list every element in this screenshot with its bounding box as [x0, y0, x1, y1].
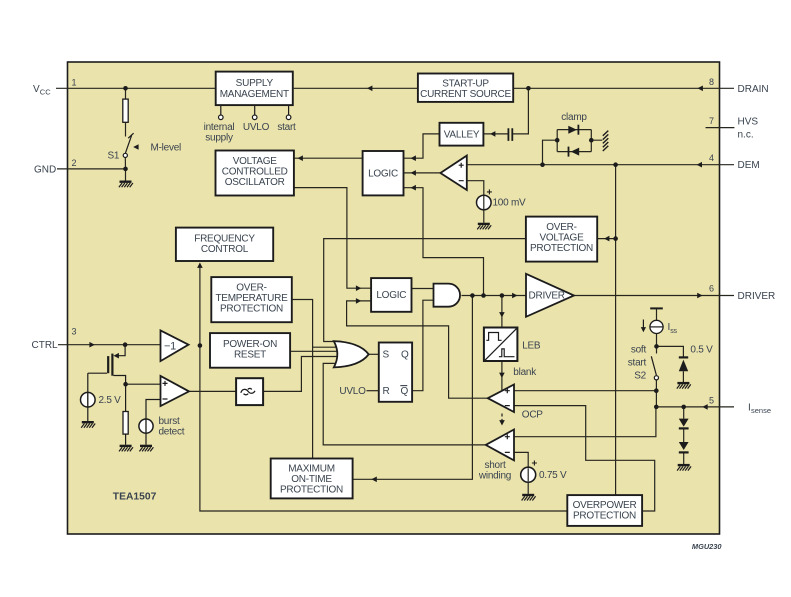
pin circles supply management — [219, 105, 291, 120]
wire ctrl comparator to filter — [189, 390, 236, 392]
diode sense D3 — [679, 419, 689, 427]
wire short winding plus input — [514, 407, 656, 437]
svg-text:OVER-: OVER- — [236, 283, 266, 294]
switch S2 — [651, 356, 656, 375]
arrowhead Isense into chip — [702, 404, 707, 410]
block OVERPOWER PROTECTION — [567, 495, 642, 526]
svg-text:−1: −1 — [164, 340, 176, 352]
wire freq control arrow line — [199, 264, 201, 346]
wire OT protection output — [292, 300, 342, 459]
svg-text:start: start — [277, 122, 296, 133]
arrowhead blank into OCP — [499, 373, 505, 378]
junction GND switch S1 — [123, 167, 128, 172]
ground below sense diodes — [677, 465, 691, 471]
wire OCP minus to overpower — [514, 406, 655, 511]
svg-text:GND: GND — [34, 164, 56, 175]
svg-text:LOGIC: LOGIC — [368, 168, 398, 179]
wire GND pin 2 line — [57, 168, 126, 170]
svg-text:Q: Q — [401, 350, 409, 361]
block OVER-VOLTAGE PROTECTION — [526, 217, 597, 262]
svg-text:HVS: HVS — [738, 116, 759, 127]
svg-text:CC: CC — [40, 87, 51, 96]
wire LOGIC1 input3 feedback — [404, 188, 484, 296]
comparator OCP — [488, 385, 514, 413]
svg-text:VOLTAGE: VOLTAGE — [539, 233, 584, 244]
arrowhead into supply management — [367, 86, 372, 92]
svg-text:S1: S1 — [108, 151, 120, 162]
junction Isense S2 node — [654, 405, 659, 410]
svg-text:CONTROLLED: CONTROLLED — [222, 167, 288, 178]
svg-text:PROTECTION: PROTECTION — [573, 510, 636, 521]
svg-text:winding: winding — [478, 470, 511, 481]
arrowhead LOGIC into VCO — [298, 155, 303, 161]
comparator short winding — [486, 430, 514, 461]
block LEB — [484, 328, 518, 362]
wire DRAIN pin 8 line — [513, 87, 734, 89]
svg-text:VALLEY: VALLEY — [444, 130, 480, 141]
wire -1 output down to overpower — [200, 346, 567, 512]
wire CTRL pin 3 line — [58, 344, 161, 346]
block VALLEY — [440, 123, 484, 146]
wire sense diode stack — [683, 407, 685, 464]
current source Iss — [650, 307, 663, 309]
svg-text:ss: ss — [670, 328, 677, 335]
junction -1 output node — [198, 343, 203, 348]
svg-text:detect: detect — [159, 427, 185, 438]
wire OCP plus input — [514, 390, 656, 392]
block LOGIC U1 — [363, 151, 404, 195]
junction clamp left node — [555, 138, 560, 143]
svg-text:0.5 V: 0.5 V — [690, 345, 713, 356]
or-gate — [334, 341, 369, 367]
wire DEM pin 4 line — [467, 164, 734, 166]
filter squiggle — [241, 388, 255, 394]
svg-text:RESET: RESET — [234, 350, 266, 361]
wire OR to latch S — [369, 353, 379, 355]
svg-text:MAXIMUM: MAXIMUM — [288, 464, 335, 475]
wire AND output to maximum on-time — [353, 296, 473, 480]
svg-text:6: 6 — [709, 284, 714, 294]
wire AND output to DRIVER — [462, 295, 527, 297]
arrowhead into FREQUENCY CONTROL — [197, 263, 203, 268]
svg-text:OVERPOWER: OVERPOWER — [573, 500, 637, 511]
ground below S1 — [119, 182, 133, 188]
and-gate — [434, 284, 461, 307]
wire Isense pin 5 line — [656, 406, 734, 408]
block START-UP CURRENT SOURCE — [418, 74, 513, 102]
switch S1 — [123, 133, 133, 157]
wire OVP output to OR gate — [324, 239, 526, 342]
wire VCO output to LOGIC2 input1 — [294, 188, 371, 289]
junction DEM clamp tap — [540, 162, 545, 167]
comparator demag — [440, 156, 466, 190]
junction driver node feedback tap — [481, 293, 486, 298]
arrowhead into LOGIC2 input1 — [356, 285, 361, 291]
plus minus short winding — [505, 434, 510, 452]
amplifier -1 — [161, 330, 189, 361]
svg-text:internal: internal — [204, 122, 235, 133]
resistor ctrl divider — [123, 412, 128, 435]
svg-text:short: short — [485, 460, 506, 471]
svg-text:CONTROL: CONTROL — [201, 244, 249, 255]
block FREQUENCY CONTROL — [176, 228, 273, 261]
svg-text:CTRL: CTRL — [32, 340, 59, 351]
comparator burst — [161, 376, 190, 406]
svg-text:OVER-: OVER- — [546, 222, 576, 233]
wire VCC pin 1 line — [56, 87, 216, 89]
svg-text:UVLO: UVLO — [339, 386, 366, 397]
wire clamp drop from DEM line — [543, 140, 558, 165]
svg-text:LEB: LEB — [522, 340, 541, 351]
svg-text:clamp: clamp — [561, 112, 587, 123]
arrowhead DEM into chip — [697, 162, 702, 168]
wire latch Qbar to AND — [412, 300, 433, 391]
block OVER-TEMPERATURE PROTECTION — [211, 277, 291, 322]
svg-text:2: 2 — [72, 158, 77, 168]
wire DEM comparator minus to 100mV — [467, 181, 484, 223]
svg-text:soft: soft — [631, 345, 647, 356]
source 0.75 V — [521, 467, 536, 482]
svg-text:100 mV: 100 mV — [493, 198, 527, 209]
junction OVP branch — [613, 236, 618, 241]
junction CTRL fet tap — [123, 342, 128, 347]
arrowhead Iss direction — [641, 327, 646, 332]
wire S1 to ground — [124, 157, 126, 180]
resistor M-level — [123, 99, 128, 122]
diode zener 0.5V — [679, 356, 688, 358]
junction DEM overvoltage tap — [613, 162, 618, 167]
block filter — [236, 378, 263, 405]
svg-text:CURRENT SOURCE: CURRENT SOURCE — [420, 89, 511, 100]
block POWER-ON RESET — [210, 333, 290, 368]
svg-text:POWER-ON: POWER-ON — [223, 339, 277, 350]
IC body TEA1507 — [68, 62, 720, 534]
source 2.5 V — [81, 392, 96, 407]
arrowhead DRIVER pin out — [697, 293, 702, 299]
svg-text:7: 7 — [709, 116, 714, 126]
block LOGIC U2 — [371, 278, 411, 312]
wire POR output to OR — [290, 350, 342, 352]
svg-text:4: 4 — [709, 153, 714, 163]
svg-text:2.5 V: 2.5 V — [99, 395, 122, 406]
plus minus OCP — [505, 388, 510, 405]
arrowhead into LEB — [499, 312, 505, 317]
svg-text:1: 1 — [72, 78, 77, 88]
junction Iss split node — [654, 344, 659, 349]
arrowhead into maximum on-time — [371, 477, 376, 483]
svg-text:DRIVER: DRIVER — [738, 291, 776, 302]
svg-text:DRIVER: DRIVER — [529, 291, 565, 302]
diode sense D4 — [679, 442, 689, 450]
svg-text:START-UP: START-UP — [442, 79, 489, 90]
svg-text:OSCILLATOR: OSCILLATOR — [225, 177, 285, 188]
junction drain valley tap — [526, 86, 531, 91]
svg-text:blank: blank — [513, 367, 537, 378]
block SUPPLY MANAGEMENT — [216, 72, 293, 106]
svg-text:TEMPERATURE: TEMPERATURE — [215, 293, 288, 304]
arrowhead drain into chip — [698, 86, 703, 92]
svg-text:3: 3 — [72, 327, 77, 337]
svg-text:supply: supply — [205, 133, 233, 144]
wire LEB blank to OCP — [501, 361, 503, 390]
svg-text:sense: sense — [751, 406, 771, 415]
wire VALLEY to LOGIC — [404, 134, 440, 158]
arrowhead comparator into LOGIC — [411, 170, 416, 176]
wire supply to startup — [294, 87, 418, 89]
clamp diode D1 right — [568, 126, 577, 134]
svg-text:PROTECTION: PROTECTION — [220, 304, 283, 315]
wire DEM comparator output to LOGIC — [404, 172, 441, 174]
svg-text:FREQUENCY: FREQUENCY — [194, 234, 255, 245]
transistor M1 sense fet — [88, 345, 126, 385]
clamp diode D2 left — [571, 148, 579, 156]
wire valley capacitor branch — [483, 88, 528, 134]
junction Isense diode node — [681, 405, 686, 410]
wire filter to OR — [263, 357, 342, 392]
wire DRIVER output pin 6 — [574, 295, 734, 297]
svg-text:burst: burst — [159, 416, 180, 427]
svg-text:LOGIC: LOGIC — [376, 290, 406, 301]
arrowhead into LOGIC2 input2 — [356, 298, 361, 304]
LEB diagonal and pulses — [485, 328, 517, 360]
plus minus burst comparator — [163, 381, 168, 399]
wire overdraw through source circles — [88, 196, 528, 481]
wire LOGIC to VCO — [294, 157, 363, 159]
arrowhead into OVP — [604, 236, 609, 242]
svg-text:0.75 V: 0.75 V — [539, 470, 567, 481]
svg-text:PROTECTION: PROTECTION — [280, 485, 343, 496]
block VOLTAGE CONTROLLED OSCILLATOR — [216, 151, 294, 196]
arrowhead valley capacitor — [490, 131, 495, 137]
ground below 100mV — [477, 224, 491, 230]
chassis ground clamp — [603, 131, 609, 151]
svg-text:PROTECTION: PROTECTION — [530, 243, 593, 254]
svg-text:TEA1507: TEA1507 — [113, 491, 157, 502]
driver buffer triangle — [526, 274, 574, 317]
junction clamp right node — [589, 138, 594, 143]
svg-text:OCP: OCP — [522, 410, 544, 421]
wire OCP output to LOGIC2 input2 — [347, 301, 488, 398]
arrowhead AND into DRIVER — [512, 293, 517, 299]
svg-text:DRAIN: DRAIN — [738, 84, 769, 95]
junction fet source divider — [123, 382, 128, 387]
capacitor valley — [508, 128, 512, 141]
svg-text:n.c.: n.c. — [738, 129, 754, 140]
arrowhead M-level — [133, 144, 138, 150]
svg-text:SUPPLY: SUPPLY — [236, 78, 274, 89]
svg-text:UVLO: UVLO — [243, 122, 270, 133]
arrowhead valley into LOGIC — [411, 155, 416, 161]
junction OCP plus node — [654, 388, 659, 393]
junction driver node maxontime tap — [470, 293, 475, 298]
arrowhead ctrl into chip — [89, 342, 94, 348]
dashed arrow OCP to short winding — [501, 414, 503, 421]
wire AND output to LEB — [501, 296, 503, 328]
svg-text:MANAGEMENT: MANAGEMENT — [220, 89, 289, 100]
arrowhead feedback into LOGIC — [411, 185, 416, 191]
svg-text:S2: S2 — [634, 371, 646, 382]
svg-text:Q: Q — [401, 386, 409, 397]
svg-text:VOLTAGE: VOLTAGE — [233, 156, 278, 167]
wire DEM to overpower vertical — [615, 165, 617, 495]
svg-text:DEM: DEM — [738, 160, 760, 171]
plus minus demag comparator — [459, 163, 464, 181]
wire resistor branch top — [125, 88, 127, 136]
wire HVS pin 7 stub — [706, 127, 735, 129]
wire clamp loop — [557, 130, 602, 152]
source burst detect — [139, 419, 153, 433]
source 100 mV — [477, 195, 492, 210]
junction driver node LEB tap — [500, 293, 505, 298]
wire LOGIC2 to AND — [412, 288, 434, 290]
svg-text:R: R — [383, 386, 390, 397]
svg-text:8: 8 — [709, 77, 714, 87]
svg-text:start: start — [628, 358, 647, 369]
svg-text:ON-TIME: ON-TIME — [291, 474, 332, 485]
wire UVLO to latch R — [367, 390, 379, 392]
wire short winding minus to 0.75V — [514, 452, 528, 494]
block MAXIMUM ON-TIME PROTECTION — [271, 459, 353, 499]
svg-text:MGU230: MGU230 — [692, 542, 722, 551]
svg-text:M-level: M-level — [151, 142, 182, 153]
wire S2 branch — [655, 346, 657, 407]
latch SR flip-flop — [379, 343, 412, 402]
wire branch to over-voltage protection — [597, 238, 615, 240]
svg-text:S: S — [383, 350, 390, 361]
svg-text:5: 5 — [709, 395, 714, 405]
wire Iss branch — [657, 308, 684, 382]
junction VCC resistor tap — [123, 86, 128, 91]
wire short winding output to OR — [323, 363, 486, 445]
